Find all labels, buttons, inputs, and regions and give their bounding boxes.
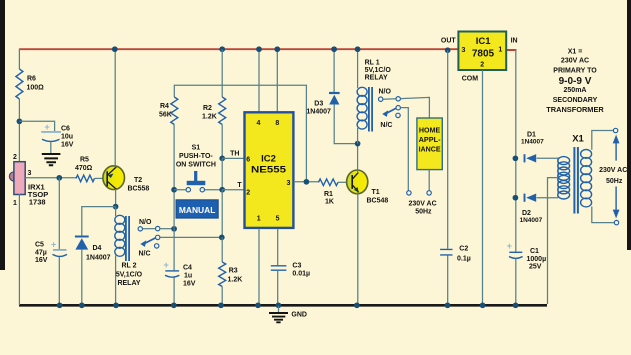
wire C2 to ground bus [447,256,449,306]
wire +V rail to RL1 coil [357,49,359,88]
svg-text:47µ: 47µ [35,250,47,257]
svg-text:RL 1: RL 1 [365,60,380,67]
node: D2 cathode junction [513,195,519,201]
wire C4 to ground bus [173,278,175,306]
resistor R5 [76,175,94,182]
svg-text:GND: GND [291,312,307,319]
wire IRX1 pin1 to ground bus [18,194,20,305]
svg-text:9-0-9 V: 9-0-9 V [559,76,592,87]
svg-text:T1: T1 [372,189,380,196]
svg-text:S1: S1 [192,145,201,152]
node: N/O / C4 junction [171,226,177,232]
svg-text:2: 2 [13,154,17,161]
wire D4 to ground bus [81,250,83,305]
wire RL2 N/O to C4 node [160,228,174,230]
svg-text:X1: X1 [572,134,584,145]
node: D4 on ground bus [79,302,85,308]
svg-text:1u: 1u [184,273,192,280]
timer IC2 NE555 [245,112,294,228]
svg-text:100Ω: 100Ω [27,85,45,92]
node: switch left junction [171,187,177,193]
svg-text:PUSH-TO-: PUSH-TO- [179,153,213,160]
svg-text:ON SWITCH: ON SWITCH [176,162,216,169]
svg-text:NE555: NE555 [251,165,287,176]
svg-text:1N4007: 1N4007 [520,217,543,224]
node: COM on ground bus [480,302,486,308]
svg-text:IC1: IC1 [476,36,492,47]
svg-text:C6: C6 [61,126,70,133]
capacitor C1 [509,251,522,253]
svg-text:5: 5 [276,215,280,222]
svg-text:+: + [45,122,50,132]
IR receiver module IRX1 TSOP1738 [9,172,14,181]
capacitor C3 [271,266,287,270]
svg-text:1.2K: 1.2K [228,277,243,284]
svg-text:TH: TH [230,151,239,158]
svg-text:R3: R3 [229,268,238,275]
svg-text:10u: 10u [61,134,73,141]
wire R4 top to pin3 feedback link [174,85,306,182]
node: relay pole / R3 junction [219,235,225,241]
relay coil RL2 [115,207,117,216]
node: C5 on ground bus [57,302,63,308]
svg-text:3: 3 [287,180,291,187]
svg-text:C4: C4 [183,265,192,272]
capacitor C6 [41,131,61,133]
mains terminals 230V AC [407,191,411,195]
wire IC1 COM to ground bus [482,70,484,305]
ground bus (black) [19,304,547,307]
svg-text:RL 2: RL 2 [121,263,136,270]
svg-text:1738: 1738 [29,197,46,206]
wire RL1 pole to mains terminal [401,108,409,191]
mains input terminals with arrows [613,128,617,132]
wire T1 emitter to ground bus [357,192,359,305]
svg-text:BC548: BC548 [367,198,389,205]
node: C2 on ground bus [445,302,451,308]
svg-text:N/O: N/O [379,89,392,96]
svg-text:2: 2 [480,62,484,69]
svg-text:1.2K: 1.2K [202,114,217,121]
wire pole node to R3 [221,237,223,262]
wire R1 to T1 base [338,181,347,183]
wire IN down to rectifier and C1 [515,50,517,252]
wire IC2 pin8 to +V rail [276,49,278,112]
node: C1 on ground bus [513,302,519,308]
node: RL2 coil on ground bus [113,302,119,308]
svg-text:IC2: IC2 [261,153,276,164]
wire T2 collector down to D4/RL2 node [115,189,117,207]
wire T2 emitter to +V rail [114,49,116,167]
svg-text:1K: 1K [325,199,334,206]
node: R3 on ground bus [218,302,224,308]
transistor T1 BC548 [347,170,368,194]
svg-text:C5: C5 [35,242,44,249]
svg-text:T: T [237,182,242,189]
svg-text:3: 3 [462,47,466,54]
svg-text:IN: IN [511,38,518,45]
GND symbol [278,306,280,312]
svg-text:1: 1 [257,215,261,222]
svg-text:N/C: N/C [380,122,392,129]
wire TH node to T node [221,158,223,189]
diode D2 1N4007 [524,194,526,202]
wire T node to IC2 pin2 [222,189,243,191]
resistor R2 [219,97,226,124]
node: OUT rail / C2 junction [445,47,451,53]
svg-text:1N4007: 1N4007 [521,139,544,146]
svg-text:25V: 25V [529,264,542,271]
svg-text:PRIMARY TO: PRIMARY TO [553,67,597,74]
svg-text:50Hz: 50Hz [415,209,432,216]
relay coil RL1 [357,87,367,96]
node: pin3 / feedback junction [304,179,310,185]
svg-text:N/O: N/O [139,219,152,226]
svg-text:1000µ: 1000µ [527,256,547,263]
wire C1 to ground bus [515,259,517,305]
wire C4 node up to switch / R4 [173,125,175,229]
node: junction R6 / C6 branch [17,118,23,124]
svg-text:7805: 7805 [472,49,495,60]
resistor R3 [219,262,226,286]
wire R2 to TH node [221,125,223,159]
wire R5 to T2 base [95,177,104,179]
wire R3 to ground bus [221,287,223,306]
svg-text:C2: C2 [459,246,468,253]
svg-text:0.01µ: 0.01µ [292,271,310,278]
svg-text:+: + [507,241,512,251]
svg-text:D3: D3 [314,101,323,108]
svg-text:RELAY: RELAY [365,75,388,82]
svg-text:56K: 56K [159,112,172,119]
svg-text:R4: R4 [160,103,169,110]
svg-text:50Hz: 50Hz [606,178,623,185]
capacitor C4 [173,229,175,270]
node: T1 emitter on ground bus [354,302,360,308]
svg-text:MANUAL: MANUAL [179,205,216,215]
svg-text:+: + [164,260,169,270]
svg-text:R6: R6 [27,76,36,83]
svg-text:C1: C1 [530,248,539,255]
resistor R4 [171,97,178,124]
wire RL2 coil to ground bus [115,256,117,306]
svg-text:R1: R1 [324,191,333,198]
svg-text:COM: COM [462,75,479,82]
wire +V rail down to R6 and IRX1 pin2 [18,49,20,163]
wire D1 to transformer secondary top [537,157,558,160]
RL1 N/C contact [396,113,400,117]
svg-text:1N4007: 1N4007 [86,255,111,262]
wire OUT node down to C2 [447,50,449,249]
MANUAL label box [176,200,218,218]
wire T node down to pole node [221,190,223,238]
wire IC2 pin5 to C3 [277,229,279,266]
diode D4 1N4007 [75,236,89,238]
svg-text:HOME: HOME [419,127,441,134]
svg-text:6: 6 [246,157,250,164]
wire +V rail to R2 [221,49,223,97]
wire IC2 pin1 to ground bus [258,229,260,306]
node: D1 cathode junction [513,155,519,161]
svg-text:2: 2 [246,190,250,197]
transistor T2 BC558 [103,166,125,190]
chassis ground below C6 [50,142,52,153]
node: T2 collector / D4 / RL2 coil [113,204,119,210]
capacitor C2 [440,249,452,255]
svg-text:230V AC: 230V AC [409,201,437,208]
home appliance box [417,118,442,170]
svg-text:230V AC: 230V AC [599,167,627,174]
wire T1 collector up to RL1 node [357,144,359,172]
svg-text:APPL-: APPL- [419,137,442,144]
node: R2 line on +V rail [219,46,225,52]
relay RL1 core [369,87,372,132]
RL1 pole arm [384,108,396,114]
svg-text:T2: T2 [134,177,142,184]
X1 core [574,147,578,214]
X1 centre tap to ground bus [548,178,559,304]
wire IC2 pin3 output [294,181,319,183]
svg-text:16V: 16V [35,257,48,264]
svg-text:0.1µ: 0.1µ [457,256,471,263]
RL2 pole arm [143,238,156,245]
wire IRX1 pin3 to R5 / C5 node [25,177,76,179]
svg-text:8: 8 [275,120,279,127]
svg-text:TRANSFORMER: TRANSFORMER [546,107,604,114]
svg-text:3: 3 [28,170,32,177]
transformer specification note [546,49,604,115]
svg-text:5V,1C/O: 5V,1C/O [365,67,392,74]
node: D3 / RL1 coil / T1 collector [355,141,361,147]
svg-text:1: 1 [498,47,502,54]
svg-text:D1: D1 [527,132,536,139]
node: C3 on ground bus / GND symbol [276,302,282,308]
resistor R6 [16,69,23,99]
svg-text:R2: R2 [203,105,212,112]
svg-text:BC558: BC558 [128,186,150,193]
node: pin3 / C5 junction [56,175,62,181]
node: C4 on ground bus [171,302,177,308]
node: TH junction [219,156,225,162]
svg-text:5V,1C/O: 5V,1C/O [116,272,143,279]
svg-text:250mA: 250mA [564,87,587,94]
wire C5 to ground bus [58,257,60,305]
svg-text:X1 =: X1 = [568,49,583,56]
wire appliance to mains terminal [428,170,430,191]
RL2 N/C contact [155,244,159,248]
wire node down to C5 [58,178,60,250]
wire RL1 N/O to appliance [401,97,430,119]
svg-text:16V: 16V [183,281,196,288]
wire node to D4 [82,207,116,236]
wire TH node to IC2 pin6 [222,157,243,159]
svg-text:SECONDARY: SECONDARY [553,97,598,104]
wire RL2 pole to R3 node [160,236,222,238]
capacitor C5 [53,249,67,251]
svg-text:RELAY: RELAY [117,280,140,287]
wire D2 to transformer secondary bottom [537,197,558,199]
svg-text:1N4007: 1N4007 [306,109,331,116]
svg-text:IANCE: IANCE [419,147,441,154]
resistor R1 [319,179,338,186]
node: T junction [219,187,225,193]
svg-text:C3: C3 [292,263,301,270]
svg-text:OUT: OUT [441,38,457,45]
svg-text:230V AC: 230V AC [561,58,589,65]
svg-text:N/C: N/C [139,251,151,258]
diode D1 1N4007 [524,154,526,162]
regulator IC1 7805 [458,32,506,71]
svg-text:16V: 16V [61,142,74,149]
svg-text:R5: R5 [80,157,89,164]
+V supply rail (red) [19,48,516,51]
node: T2 emitter on +V rail [112,46,118,52]
diode D3 1N4007 [329,92,340,94]
wire C3 to ground bus [277,271,279,305]
wire IC2 pin4 to +V rail [258,49,260,112]
X1 primary winding [592,131,614,223]
X1 secondary winding [557,158,559,198]
svg-text:+: + [51,240,56,250]
svg-text:D2: D2 [522,210,531,217]
svg-text:470Ω: 470Ω [75,165,93,172]
wire D3 to RL1 node [334,104,357,143]
svg-text:1: 1 [13,200,17,207]
wire +V rail to D3 [333,49,335,92]
relay RL2 core [126,216,129,261]
svg-text:4: 4 [257,120,261,127]
svg-text:D4: D4 [93,245,102,252]
wire junction to C6 [19,121,54,131]
